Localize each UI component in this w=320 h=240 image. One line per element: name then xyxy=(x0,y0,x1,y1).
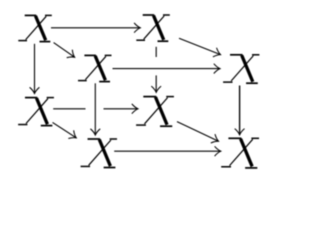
arrow C to D : right segment with head xyxy=(104,108,139,110)
arrow B' to D' (right back vertical) xyxy=(239,86,241,135)
node D' : X back bottom-right xyxy=(221,138,259,168)
arrow B to D (right front vertical, broken behind A'-B') : upper segment xyxy=(155,47,157,57)
node A : X front top-left xyxy=(18,15,52,41)
arrow D to D' (diagonal into page) xyxy=(177,122,219,142)
arrow B to D : lower segment with head xyxy=(155,75,157,92)
node C : X front bottom-left xyxy=(18,98,54,126)
node B : X front top-right xyxy=(136,15,170,41)
node A' : X back top-left xyxy=(78,55,112,81)
arrow A' to C' (left back vertical) xyxy=(94,83,96,135)
arrow C to C' (diagonal into page) xyxy=(53,122,77,137)
arrow A to C (left front vertical) xyxy=(34,44,36,94)
node C' : X back bottom-left xyxy=(81,139,117,168)
arrow A to A' (diagonal into page) xyxy=(54,43,75,58)
arrow C' to D' (bottom back horizontal) xyxy=(114,150,221,152)
arrow A to B (top front horizontal) xyxy=(51,27,140,29)
arrow B to B' (diagonal into page) xyxy=(179,38,221,54)
node D : X front bottom-right xyxy=(136,97,174,127)
node B' : X back top-right xyxy=(223,55,259,83)
arrow A' to B' (top back horizontal) xyxy=(113,68,221,70)
arrow C to D (bottom front horizontal, broken behind A'-C') : left segment xyxy=(53,108,85,110)
